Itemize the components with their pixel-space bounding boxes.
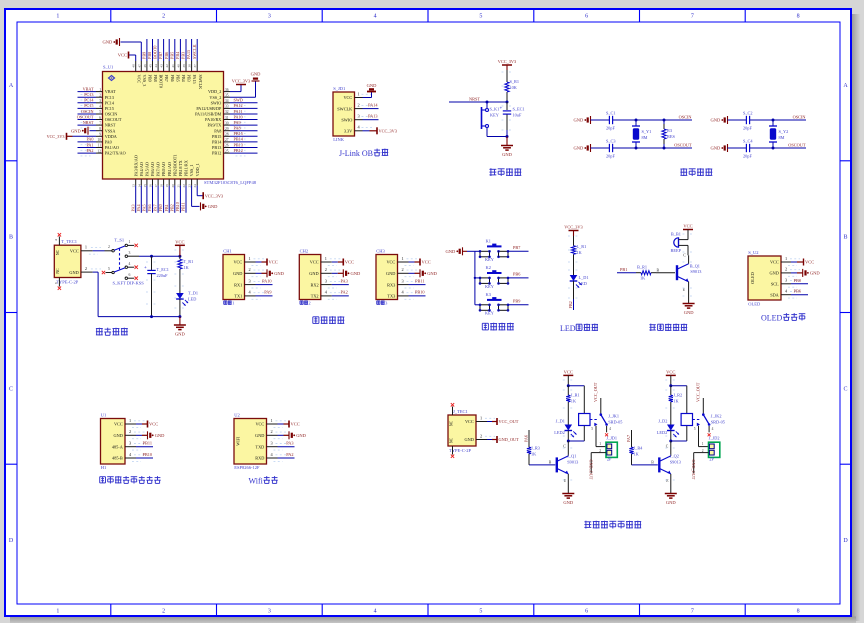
svg-text:PC14: PC14 [84,98,94,103]
svg-text:TX1: TX1 [234,294,242,299]
MCU pin 28 PB15 [224,135,231,137]
svg-text:OLED: OLED [761,314,783,323]
svg-text:1: 1 [480,415,482,420]
svg-text:12: 12 [97,149,101,153]
svg-text:J_D1: J_D1 [556,419,565,424]
svg-text:PA9: PA9 [234,120,241,125]
svg-text:NC: NC [56,268,60,274]
svg-text:2: 2 [308,301,310,306]
svg-text:J-Link OB: J-Link OB [339,149,373,158]
switch pin1 with X [125,244,127,246]
MCU pin 27 PB14 [224,141,231,143]
svg-text:2: 2 [85,266,87,271]
svg-text:PA9: PA9 [264,290,271,295]
MCU pin 12 PA2/TX/AO [96,152,103,154]
wire / net label PB15 [230,135,258,137]
MCU pin 5 OSCIN [96,113,103,115]
CH2 pin 1 VCC [321,261,332,263]
svg-text:PB2: PB2 [169,204,174,211]
MCU VSSA ground [90,130,97,132]
MCU pin 24 VDD_1 [196,179,198,186]
MCU U1 STM32F103C8T6 body [103,72,224,180]
net PB0 [791,283,808,285]
transistor J_Q1 S9013 [556,457,558,472]
svg-text:PB10: PB10 [175,202,180,211]
svg-text:S_C2: S_C2 [743,111,753,116]
svg-text:J_TEC1: J_TEC1 [453,409,468,414]
power GND [278,434,284,436]
svg-text:GND: GND [208,204,218,209]
svg-text:PB5: PB5 [169,52,174,59]
svg-text:BOOT0: BOOT0 [159,75,164,89]
wire to bottom rail [179,299,181,317]
svg-text:3: 3 [129,441,131,446]
MCU pin 35 VSS_2 [224,96,231,98]
svg-text:PB10/TX: PB10/TX [178,160,183,176]
TYPE-C connector T_TEC1 [54,245,81,277]
MCU pin 8 VSSA [96,130,103,132]
svg-text:PB0: PB0 [158,204,163,211]
connector U2 body [234,419,267,465]
svg-text:RES: RES [667,134,675,139]
svg-text:OLED: OLED [748,302,761,307]
svg-text:2: 2 [402,267,404,272]
relay switch arm [703,415,709,425]
svg-text:OSCOUT: OSCOUT [788,142,806,147]
svg-text:2: 2 [129,429,131,434]
svg-text:PB5: PB5 [175,75,180,82]
relay driver VCC [666,374,676,376]
svg-text:KEY: KEY [490,113,499,118]
wire right [508,250,529,252]
svg-text:46: 46 [143,64,147,68]
capacitor S_C2 [745,116,747,124]
S_U2 pin 4 SDA [781,294,791,296]
wire / net label PC15 [78,107,97,109]
svg-text:VCC_OUT: VCC_OUT [696,382,701,402]
power GND [136,434,142,436]
svg-text:1: 1 [232,301,234,306]
svg-text:PA0: PA0 [105,140,112,145]
svg-text:KEY: KEY [485,284,494,289]
terminal pin2 wire / GND_OUT [591,452,606,454]
svg-text:6: 6 [585,14,588,20]
CH2 pin 2 GND [321,272,332,274]
svg-text:LINK: LINK [333,137,344,142]
wire [179,272,181,293]
wire to collector [670,441,672,452]
svg-text:3: 3 [129,251,131,255]
svg-text:LED2: LED2 [554,430,565,435]
svg-text:1: 1 [99,88,101,92]
terminal J_JD1 2P [606,442,617,457]
svg-text:PC15: PC15 [84,103,93,108]
svg-text:LED: LED [560,324,576,333]
U2 pin 3 TXD [267,446,278,448]
CH2 pin 3 RX2 [321,284,332,286]
svg-text:38: 38 [188,64,192,68]
svg-text:KEY: KEY [485,311,494,316]
wire / net label SWD [230,102,258,104]
svg-text:2: 2 [271,429,273,434]
gnd bottom [590,144,592,152]
svg-text:PA8: PA8 [214,128,221,133]
MCU VSS_1 to GND [191,186,193,207]
wire / net label SWCLK [196,39,198,61]
svg-text:TX3: TX3 [387,294,395,299]
S_U2 pin 1 VCC [781,261,791,263]
svg-text:VCC: VCC [114,422,123,427]
svg-text:PA9/TX: PA9/TX [207,123,221,128]
wire / net label PA6 [152,186,154,213]
svg-text:PB8: PB8 [153,75,158,82]
svg-text:22: 22 [182,184,186,188]
MCU pin 16 PA6/AO [152,179,154,186]
svg-text:PA3: PA3 [341,278,348,283]
svg-text:VCC: VCC [666,369,675,374]
svg-text:24: 24 [193,184,197,188]
MCU pin 21 PB10/TX [179,179,181,186]
section title serial [312,317,314,324]
U2 pin 2 GND [267,434,278,436]
wire [670,404,672,425]
svg-text:S_KFT DIP-KSS: S_KFT DIP-KSS [113,281,145,286]
svg-text:VCC: VCC [465,419,474,424]
capacitor S_C4 [745,144,747,152]
MCU pin 17 PA7/AO [157,179,159,186]
svg-text:J_D2: J_D2 [658,419,667,424]
net PA3 [278,446,295,448]
svg-text:VDDA: VDDA [105,134,117,139]
svg-text:32: 32 [225,110,229,114]
svg-text:PB6: PB6 [794,289,802,294]
net PA3 [332,284,349,286]
switch gang dashed link [119,249,121,270]
section title reset [489,168,496,170]
svg-text:PB12: PB12 [234,148,243,153]
svg-text:LED2: LED2 [657,430,668,435]
connector CH2 body [299,255,321,300]
svg-text:1K: 1K [577,250,583,255]
net label PB1 [617,272,636,274]
wire with net label PB2 [573,281,575,299]
svg-text:GND: GND [427,271,437,276]
svg-text:GND: GND [71,128,81,133]
svg-text:4: 4 [712,427,714,431]
svg-text:GND: GND [351,271,361,276]
svg-text:VCC: VCC [149,422,158,427]
LED J_D2 [667,425,675,431]
S_JD1 pin 3 SWIO [355,119,363,121]
svg-text:10: 10 [97,138,101,142]
keys GND [462,247,464,255]
power VCC [332,261,338,263]
MCU pin 44 BOOT0 [157,61,159,72]
svg-text:PA13: PA13 [368,114,377,119]
base resistor J_R4 1K [632,464,658,466]
net PB11 [136,446,153,448]
resistor T_R1 1K [179,256,181,259]
svg-text:SWCLK: SWCLK [198,75,203,90]
svg-text:PA2/TX/AO: PA2/TX/AO [105,151,126,156]
svg-text:GND: GND [175,332,185,337]
svg-text:1: 1 [402,256,404,261]
svg-text:Wifi: Wifi [249,477,264,486]
svg-text:2: 2 [162,609,165,615]
svg-text:GND: GND [386,271,395,276]
svg-text:S9013: S9013 [567,460,578,465]
svg-text:J_JD2: J_JD2 [709,436,720,441]
MCU pin 40 PB4 [179,61,181,72]
svg-text:PB0: PB0 [794,278,801,283]
wire / net label PC14 [78,102,97,104]
svg-text:PB15: PB15 [234,131,243,136]
svg-text:B: B [843,235,847,241]
VCC power symbol [179,245,181,256]
svg-text:PB2/BOOT1: PB2/BOOT1 [172,155,177,177]
svg-text:B: B [651,461,654,465]
svg-text:VCC: VCC [255,422,264,427]
net label PA7 [631,430,633,445]
wire right [508,304,529,306]
svg-text:14: 14 [137,184,141,188]
svg-text:OSCIN: OSCIN [105,112,118,117]
svg-text:J_JK2: J_JK2 [711,414,722,419]
svg-text:+: + [144,266,147,271]
wire top rail [591,119,610,121]
svg-text:VBAT: VBAT [105,89,116,94]
svg-text:16: 16 [149,184,153,188]
section title soil module [99,477,101,483]
svg-text:PB15: PB15 [212,134,221,139]
svg-text:PA12/USB/DP: PA12/USB/DP [196,106,222,111]
transistor B_Q1 S9013 [676,265,678,280]
svg-text:A: A [843,83,848,89]
wire / net label PB9 [146,39,148,61]
svg-text:1: 1 [271,418,273,423]
svg-text:VDD_2: VDD_2 [208,89,221,94]
MCU pin 25 PB12 [224,152,231,154]
svg-text:SWCLK: SWCLK [192,44,197,59]
wire [567,404,569,425]
net PA13 [363,119,379,121]
svg-text:PB8: PB8 [147,52,152,59]
MCU pin 46 PB9 [146,61,148,72]
wire to ground [179,317,181,325]
coil bottom wire [583,426,585,442]
svg-text:K3: K3 [486,292,491,297]
svg-text:5: 5 [479,14,482,20]
svg-text:PB1/AO: PB1/AO [167,162,172,176]
MCU VCC top to VCC bar [135,55,137,61]
svg-text:GND: GND [367,83,377,88]
svg-text:K1: K1 [486,239,491,244]
svg-text:1: 1 [56,609,59,615]
svg-text:PA7: PA7 [153,204,158,211]
connector U1 body [101,419,126,465]
wire to transistor collector [687,245,689,255]
svg-text:U2: U2 [234,412,240,417]
svg-text:PA6: PA6 [523,435,528,442]
MCU pin 26 PB13 [224,147,231,149]
svg-text:D: D [9,538,14,544]
svg-text:485-B: 485-B [112,456,123,461]
svg-text:U1: U1 [101,412,107,417]
svg-text:1K: 1K [673,399,679,404]
LED T_D1 [176,293,184,299]
svg-text:5: 5 [479,609,482,615]
svg-text:PA11/USB/DM: PA11/USB/DM [195,112,221,117]
S_U2 pin 2 GND [781,272,791,274]
svg-text:3: 3 [268,609,271,615]
base resistor B_R1 1K [656,272,675,274]
svg-text:37: 37 [193,64,197,68]
S_JD1 pin 2 SWCLK [355,108,363,110]
svg-text:B_Q1: B_Q1 [690,264,700,269]
MCU pin 10 PA0 [96,141,103,143]
wire / net label VBAT [78,91,97,93]
MCU pin 13 PA3/RX/AO [135,179,137,186]
svg-text:45: 45 [149,64,153,68]
wire bottom rail [728,147,747,149]
svg-text:SRD-05: SRD-05 [608,420,622,425]
svg-text:SWCLK: SWCLK [337,106,353,111]
svg-text:GND: GND [684,310,694,315]
MCU VDD_2 to VCC_3V3 rail [230,91,241,93]
svg-text:PA4: PA4 [136,204,141,212]
svg-text:VCC: VCC [386,260,395,265]
svg-text:35: 35 [225,93,229,97]
svg-text:J_R3: J_R3 [531,446,540,451]
MCU pin 32 PA11/USB/DM [224,113,231,115]
svg-text:GND: GND [574,118,584,123]
MCU pin 30 PA9/TX [224,124,231,126]
section title keys [481,323,483,330]
svg-text:NC: NC [450,420,454,426]
wire / net label OSCIN [78,113,97,115]
terminal pin2 wire / GND_OUT [694,452,709,454]
svg-text:PB3: PB3 [181,52,186,59]
wire to coil [568,385,584,387]
svg-text:PA8: PA8 [234,126,241,131]
svg-text:1K: 1K [184,265,190,270]
svg-text:7: 7 [691,609,694,615]
svg-text:5: 5 [108,267,110,271]
svg-text:+: + [500,107,503,112]
wire / net label NRST [78,124,97,126]
svg-text:PB2: PB2 [568,301,573,308]
svg-text:1: 1 [785,256,787,261]
crystal S_Y1 8M [635,119,638,122]
svg-text:2P: 2P [607,457,612,462]
LED L_D1 [570,275,578,281]
svg-text:ESP8266-12F: ESP8266-12F [234,465,260,470]
svg-text:36: 36 [225,88,229,92]
svg-text:T_D1: T_D1 [188,291,198,296]
svg-text:41: 41 [171,64,175,68]
wire / net label BOOT0 [157,39,159,61]
relay coil J_JK1 [579,414,590,426]
svg-text:6: 6 [585,609,588,615]
wire top rail [728,119,747,121]
svg-text:S_U2: S_U2 [748,250,758,255]
svg-text:GND: GND [69,270,78,275]
svg-text:PB7: PB7 [164,75,169,82]
LED circuit VCC_3V3 [569,230,579,232]
svg-text:2P: 2P [709,457,714,462]
wire / net label PA4 [140,186,142,213]
svg-text:23: 23 [188,184,192,188]
MCU pin 7 NRST [96,124,103,126]
svg-text:VCC: VCC [343,95,352,100]
svg-text:PA15: PA15 [192,75,197,84]
MCU pin 33 PA12/USB/DP [224,107,231,109]
svg-text:PB11: PB11 [181,202,186,211]
svg-text:VCC_3V3: VCC_3V3 [498,59,516,64]
svg-text:PC13: PC13 [105,95,114,100]
svg-text:2: 2 [249,267,251,272]
svg-text:S9013: S9013 [690,269,701,274]
MCU pin 36 VDD_2 [224,91,231,93]
svg-text:1: 1 [129,418,131,423]
svg-text:PA10: PA10 [234,114,243,119]
svg-text:S_C1: S_C1 [606,111,616,116]
svg-text:J_Q1: J_Q1 [567,454,576,459]
svg-text:PB1: PB1 [164,204,169,211]
svg-text:VCC: VCC [345,260,354,265]
svg-text:PB6: PB6 [164,52,169,59]
wire GND down to bottom rail [93,271,98,273]
MCU VSS_2 to GND [230,96,256,98]
MCU VDD_1 to VCC_3V3 [196,186,198,196]
svg-text:27: 27 [225,138,229,142]
svg-text:1: 1 [56,14,59,20]
wire VCC to switch [93,250,105,252]
svg-text:VSS_2: VSS_2 [209,95,221,100]
wire / net label PB7 [163,39,165,61]
svg-text:RXD: RXD [255,456,264,461]
svg-text:PB3: PB3 [187,75,192,82]
svg-text:48: 48 [132,64,136,68]
svg-text:PB7: PB7 [513,245,521,250]
capacitor T_EC1 220uF [151,256,153,270]
svg-text:T_R1: T_R1 [184,259,194,264]
svg-text:RX2: RX2 [310,282,318,287]
switch pin5 with X [102,271,105,274]
svg-text:GND: GND [233,271,242,276]
power GND [256,272,262,274]
svg-text:20pF: 20pF [743,126,752,131]
wire to collector [567,441,569,452]
svg-text:6: 6 [129,273,131,277]
power VCC [409,261,415,263]
MCU pin 41 PB5 [174,61,176,72]
J-Link connector S_JD1 [333,92,355,136]
svg-text:1: 1 [129,240,131,244]
svg-text:J_JD1: J_JD1 [606,436,617,441]
svg-text:S_R1: S_R1 [510,79,520,84]
svg-text:T_TEC1: T_TEC1 [61,239,77,244]
svg-text:11: 11 [98,144,102,148]
svg-text:NRST: NRST [83,120,94,125]
section title power [96,328,103,330]
T_TEC1 NC pin bottom with X [58,278,60,287]
net PB11 [409,284,426,286]
svg-text:J_JK1: J_JK1 [608,414,619,419]
wire [613,119,692,121]
wire / net label PA11 [230,113,258,115]
switch pin2 stub [105,250,112,252]
